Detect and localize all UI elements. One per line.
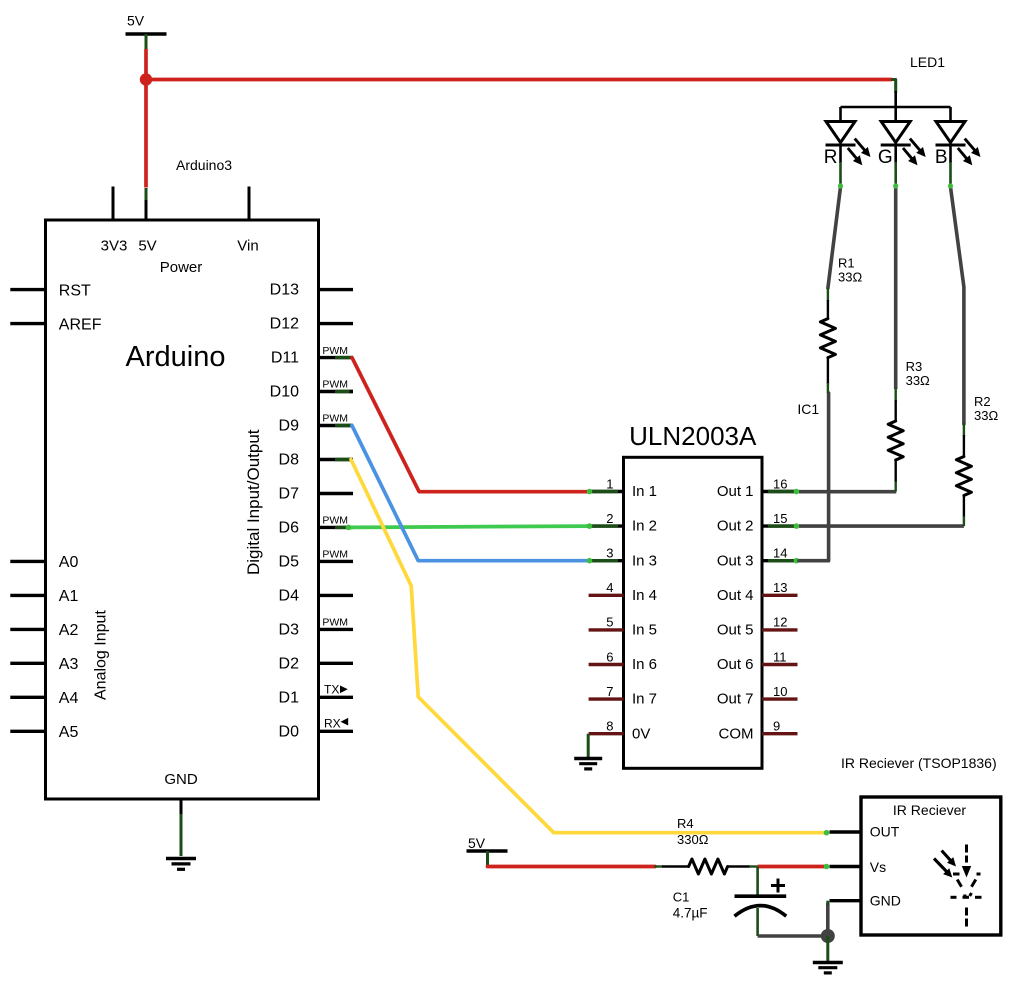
svg-text:In 3: In 3 bbox=[632, 552, 657, 569]
svg-text:Out 2: Out 2 bbox=[717, 518, 754, 535]
svg-text:Out 5: Out 5 bbox=[717, 622, 754, 639]
svg-text:In 2: In 2 bbox=[632, 518, 657, 535]
svg-text:C1: C1 bbox=[673, 890, 690, 905]
svg-text:3: 3 bbox=[606, 546, 613, 561]
svg-text:Vs: Vs bbox=[870, 859, 886, 875]
svg-text:13: 13 bbox=[773, 580, 787, 595]
svg-text:D4: D4 bbox=[279, 587, 300, 604]
svg-text:D8: D8 bbox=[279, 452, 300, 469]
svg-text:PWM: PWM bbox=[322, 617, 348, 629]
svg-text:33Ω: 33Ω bbox=[974, 408, 998, 423]
svg-text:9: 9 bbox=[773, 719, 780, 734]
svg-text:In 4: In 4 bbox=[632, 587, 657, 604]
svg-text:PWM: PWM bbox=[322, 413, 348, 425]
svg-text:Analog Input: Analog Input bbox=[93, 610, 110, 700]
svg-text:D2: D2 bbox=[279, 655, 300, 672]
svg-text:R4: R4 bbox=[677, 816, 694, 831]
svg-text:D6: D6 bbox=[279, 519, 300, 536]
svg-text:A4: A4 bbox=[59, 690, 79, 707]
svg-text:Out 3: Out 3 bbox=[717, 552, 754, 569]
svg-text:2: 2 bbox=[606, 511, 613, 526]
svg-text:4.7µF: 4.7µF bbox=[673, 905, 708, 920]
svg-text:D11: D11 bbox=[271, 350, 299, 367]
svg-text:R2: R2 bbox=[974, 394, 991, 409]
svg-text:5V: 5V bbox=[468, 835, 486, 851]
svg-text:In 5: In 5 bbox=[632, 622, 657, 639]
svg-text:15: 15 bbox=[773, 511, 787, 526]
svg-text:PWM: PWM bbox=[322, 515, 348, 527]
svg-text:PWM: PWM bbox=[322, 379, 348, 391]
svg-text:D1: D1 bbox=[279, 689, 300, 706]
svg-text:G: G bbox=[878, 147, 893, 168]
svg-text:In 7: In 7 bbox=[632, 691, 657, 708]
svg-text:1: 1 bbox=[606, 476, 613, 491]
svg-text:10: 10 bbox=[773, 684, 787, 699]
svg-text:PWM: PWM bbox=[322, 549, 348, 561]
svg-text:Out 6: Out 6 bbox=[717, 656, 754, 673]
svg-text:D0: D0 bbox=[279, 723, 300, 740]
svg-text:B: B bbox=[935, 147, 948, 168]
svg-text:IC1: IC1 bbox=[797, 401, 819, 417]
svg-text:5V: 5V bbox=[127, 13, 145, 29]
svg-text:D5: D5 bbox=[279, 553, 300, 570]
svg-text:Vin: Vin bbox=[237, 238, 258, 255]
svg-text:330Ω: 330Ω bbox=[677, 832, 709, 847]
svg-text:D12: D12 bbox=[270, 316, 299, 333]
svg-text:AREF: AREF bbox=[59, 316, 102, 333]
svg-text:0V: 0V bbox=[632, 725, 650, 742]
svg-text:4: 4 bbox=[606, 580, 613, 595]
svg-text:GND: GND bbox=[164, 771, 198, 788]
svg-text:12: 12 bbox=[773, 615, 787, 630]
svg-text:ULN2003A: ULN2003A bbox=[629, 421, 757, 451]
svg-text:5: 5 bbox=[606, 615, 613, 630]
svg-text:GND: GND bbox=[870, 893, 901, 909]
svg-text:A2: A2 bbox=[59, 622, 79, 639]
svg-text:D3: D3 bbox=[279, 621, 300, 638]
svg-text:A0: A0 bbox=[59, 554, 79, 571]
svg-text:OUT: OUT bbox=[870, 824, 900, 840]
svg-text:D10: D10 bbox=[270, 384, 299, 401]
svg-text:Arduino: Arduino bbox=[126, 341, 226, 373]
svg-text:RX: RX bbox=[324, 716, 341, 730]
svg-text:33Ω: 33Ω bbox=[838, 270, 862, 285]
svg-text:Out 4: Out 4 bbox=[717, 587, 754, 604]
svg-text:11: 11 bbox=[773, 649, 787, 664]
svg-text:A3: A3 bbox=[59, 656, 79, 673]
svg-text:PWM: PWM bbox=[322, 345, 348, 357]
svg-text:COM: COM bbox=[719, 725, 754, 742]
svg-text:3V3: 3V3 bbox=[101, 238, 128, 255]
svg-text:IR Reciever (TSOP1836): IR Reciever (TSOP1836) bbox=[841, 755, 997, 771]
svg-text:14: 14 bbox=[773, 546, 787, 561]
svg-text:A1: A1 bbox=[59, 588, 79, 605]
svg-text:D13: D13 bbox=[270, 282, 299, 299]
svg-text:7: 7 bbox=[606, 684, 613, 699]
svg-text:R1: R1 bbox=[838, 256, 855, 271]
svg-text:IR Reciever: IR Reciever bbox=[893, 802, 966, 818]
svg-text:TX: TX bbox=[324, 682, 339, 696]
svg-text:D9: D9 bbox=[279, 418, 300, 435]
svg-text:Digital Input/Output: Digital Input/Output bbox=[244, 429, 263, 575]
svg-text:In 1: In 1 bbox=[632, 483, 657, 500]
svg-text:R3: R3 bbox=[906, 359, 923, 374]
svg-text:In 6: In 6 bbox=[632, 656, 657, 673]
svg-text:A5: A5 bbox=[59, 724, 79, 741]
svg-text:33Ω: 33Ω bbox=[906, 373, 930, 388]
svg-text:6: 6 bbox=[606, 649, 613, 664]
svg-text:5V: 5V bbox=[138, 238, 156, 255]
svg-text:Out 7: Out 7 bbox=[717, 691, 754, 708]
svg-text:RST: RST bbox=[59, 282, 91, 299]
svg-text:8: 8 bbox=[606, 719, 613, 734]
svg-text:Out 1: Out 1 bbox=[717, 483, 754, 500]
svg-text:D7: D7 bbox=[279, 486, 300, 503]
svg-text:R: R bbox=[824, 147, 838, 168]
svg-text:LED1: LED1 bbox=[910, 54, 945, 70]
svg-text:Power: Power bbox=[160, 259, 203, 276]
svg-text:Arduino3: Arduino3 bbox=[176, 157, 232, 173]
svg-text:16: 16 bbox=[773, 476, 787, 491]
